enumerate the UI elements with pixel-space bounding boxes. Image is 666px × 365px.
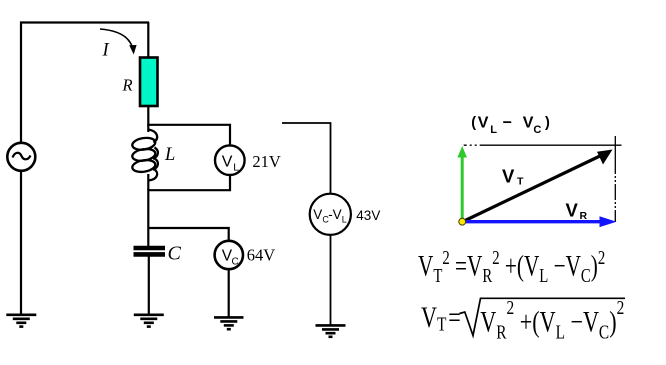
- wire top to resistor: [147, 22, 149, 58]
- voltmeter VC: [215, 241, 243, 269]
- wire VCVL meter to ground: [330, 235, 332, 325]
- capacitor C: [134, 248, 166, 254]
- equation 1: [418, 245, 605, 286]
- wire node2 to VC meter: [148, 228, 228, 242]
- phasor VL-VC green arrow: [457, 146, 467, 222]
- svg-text:V: V: [502, 165, 515, 186]
- svg-text:V: V: [566, 200, 579, 221]
- svg-text:V: V: [478, 115, 489, 132]
- ground (VC branch): [214, 317, 244, 329]
- resistor R: [140, 58, 158, 107]
- svg-text:43V: 43V: [356, 208, 380, 223]
- wire resistor to node1: [147, 106, 149, 126]
- wire VC meter to ground: [228, 269, 230, 317]
- wire VL meter bottom: [148, 175, 230, 190]
- ground (capacitor branch): [134, 315, 164, 327]
- wire left vertical lower: [20, 171, 22, 314]
- wire node1 to VL meter: [148, 125, 230, 146]
- ground (VCVL branch): [316, 325, 346, 336]
- svg-text:L: L: [342, 214, 347, 224]
- svg-text:R: R: [122, 76, 133, 95]
- svg-text:VR2 +(VL −VC)2: VR2 +(VL −VC)2: [480, 296, 624, 343]
- svg-text:): ): [545, 115, 550, 131]
- inductor L: [131, 124, 157, 190]
- svg-text:V: V: [523, 115, 534, 132]
- phasor VR blue arrow: [462, 216, 617, 227]
- wire node2 vertical: [147, 189, 149, 246]
- svg-text:T: T: [517, 176, 524, 188]
- wire left vertical upper: [20, 22, 22, 144]
- svg-text:L: L: [490, 124, 497, 136]
- voltmeter VL: [215, 145, 245, 175]
- construction line horizontal: [464, 144, 622, 146]
- svg-text:-V: -V: [328, 207, 342, 222]
- svg-text:VT =: VT =: [421, 301, 461, 335]
- equation 2: [421, 296, 625, 343]
- svg-text:C: C: [232, 256, 239, 267]
- phasor VT arrow: [462, 150, 613, 223]
- svg-text:(: (: [471, 115, 476, 131]
- ground (source branch): [6, 315, 36, 327]
- svg-text:64V: 64V: [247, 245, 275, 264]
- svg-text:L: L: [164, 145, 175, 165]
- svg-text:V: V: [222, 153, 233, 170]
- svg-text:VT2 =VR2 +(VL −VC)2: VT2 =VR2 +(VL −VC)2: [418, 245, 605, 286]
- voltmeter VCVL: [310, 194, 351, 235]
- wire capacitor to ground: [148, 256, 150, 314]
- wire top horizontal: [20, 21, 149, 23]
- svg-text:C: C: [533, 124, 541, 136]
- svg-text:V: V: [313, 207, 322, 222]
- svg-text:R: R: [580, 210, 588, 222]
- label (VL-VC) phasor title: [471, 115, 550, 137]
- construction line vertical: [614, 136, 616, 222]
- label VR: [566, 200, 588, 222]
- svg-text:21V: 21V: [252, 152, 281, 171]
- svg-text:L: L: [233, 162, 239, 174]
- origin node: [459, 218, 466, 225]
- label VT: [502, 165, 524, 187]
- svg-text:C: C: [168, 242, 182, 264]
- current arrow I: [100, 29, 137, 55]
- svg-text:−: −: [503, 115, 512, 132]
- ac source V1: [7, 143, 35, 171]
- svg-text:I: I: [102, 41, 110, 61]
- wire VCVL probe: [282, 123, 331, 194]
